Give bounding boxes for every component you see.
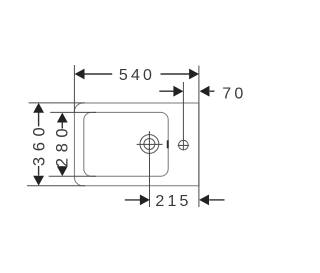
svg-text:540: 540 xyxy=(119,67,155,84)
extension line left (540) xyxy=(73,65,75,112)
dimension 360 line upper segment xyxy=(38,112,40,126)
dimension 215 right arrow (points left) xyxy=(199,195,209,206)
dimension 540 right arrow xyxy=(189,69,199,80)
dimension 280 up arrow xyxy=(57,113,68,123)
extension line 280 bottom xyxy=(49,175,96,177)
extension line 360 bottom xyxy=(27,185,85,187)
basin inner outline (rounded rect) xyxy=(84,112,168,176)
svg-text:215: 215 xyxy=(155,193,191,210)
faucet hole circle xyxy=(179,140,189,150)
drain crosshair vertical xyxy=(148,131,150,157)
dimension 540 line right segment xyxy=(161,73,191,75)
dimension 70 line right segment xyxy=(210,90,215,92)
dimension 70 line left segment xyxy=(159,90,173,92)
dimension 360 line lower segment xyxy=(38,166,40,176)
extension line drain center down (215) xyxy=(149,157,151,207)
dimension 215 left arrow (points right) xyxy=(140,195,150,206)
dimension 70 left arrow (points right) xyxy=(173,86,183,97)
dimension 540 left arrow xyxy=(75,69,85,80)
dimension 280 line upper segment xyxy=(61,122,63,129)
drain crosshair horizontal xyxy=(137,143,163,145)
drain hole inner circle xyxy=(144,139,155,150)
ceramic outer outline (rounded left corners, sharp right corners) xyxy=(74,103,198,186)
extension line 280 top xyxy=(50,111,96,113)
dimension 280 down arrow xyxy=(57,166,68,176)
dimension 360 down arrow xyxy=(33,176,44,186)
svg-text:70: 70 xyxy=(222,85,246,102)
dimension 360 up arrow xyxy=(33,103,44,113)
svg-text:280: 280 xyxy=(53,123,71,167)
dimension 215 line right segment xyxy=(209,199,224,201)
extension line right (540/70/215) xyxy=(198,66,200,208)
dimension 70 right arrow (points left) xyxy=(200,86,210,97)
extension line faucet hole (70) xyxy=(182,82,184,150)
dimension 215 line left segment xyxy=(125,199,141,201)
dimension 280 line lower segment xyxy=(61,166,63,168)
dimension 540 line left segment xyxy=(84,73,112,75)
drain hole outer circle xyxy=(140,135,159,154)
extension line 360 top xyxy=(29,102,85,104)
svg-text:360: 360 xyxy=(31,122,49,166)
faucet hole crosshair horizontal xyxy=(178,144,189,146)
overflow slot mark on basin right edge xyxy=(167,140,169,148)
